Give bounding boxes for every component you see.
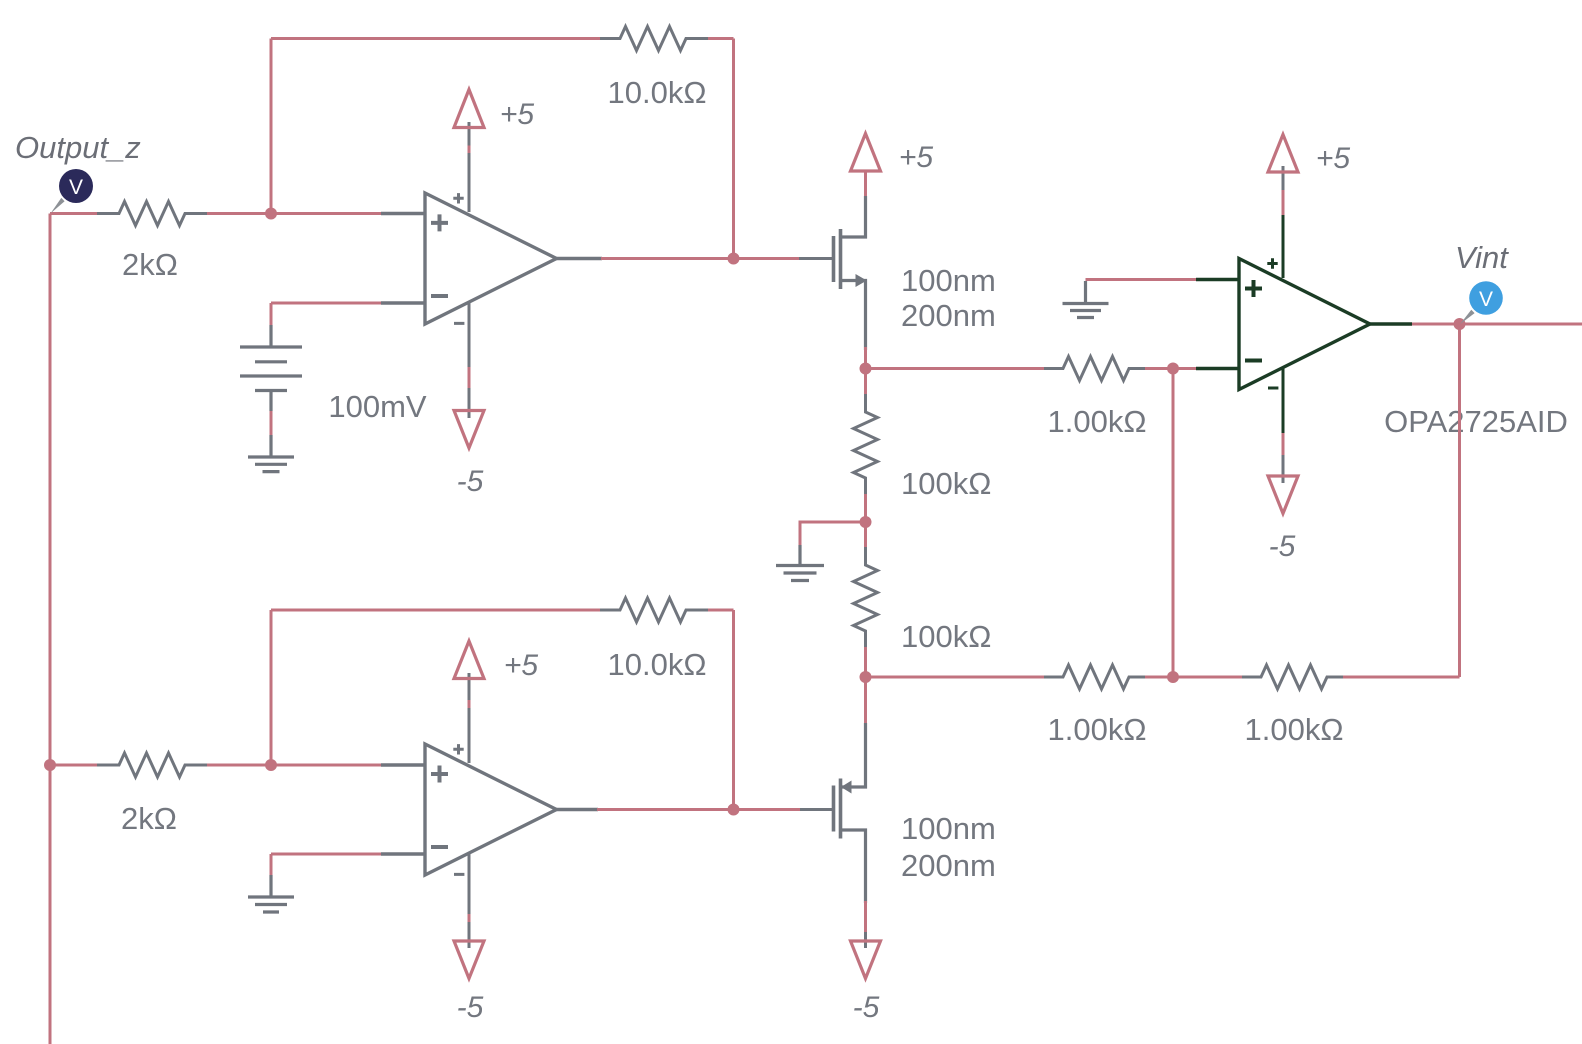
transistor M2 bottom pmos — [799, 723, 866, 903]
svg-text:1.00kΩ: 1.00kΩ — [1047, 712, 1146, 747]
arrow M2 drain — [841, 781, 852, 794]
svg-text:+5: +5 — [899, 141, 934, 174]
wire op-amp3 -in to ground — [271, 854, 382, 875]
resistor R5 1.00k — [1044, 357, 1147, 381]
wire node G down — [1458, 324, 1461, 677]
power flag -5 op-amp U3 — [454, 941, 484, 979]
wire R5 to node F — [1145, 367, 1196, 370]
node F junction op-amp2 -in — [1167, 363, 1179, 375]
wire M1 source to node — [864, 347, 867, 369]
svg-text:-5: -5 — [853, 991, 880, 1024]
svg-text:+5: +5 — [504, 649, 539, 682]
resistor R8 2k bottom — [97, 753, 207, 777]
node B junction op-amp1 output — [728, 253, 740, 265]
power flag -5 op-amp U2 — [1268, 476, 1298, 514]
svg-text:V: V — [69, 176, 83, 199]
wire op-amp2 output — [1412, 323, 1582, 326]
svg-text:10.0kΩ: 10.0kΩ — [607, 75, 706, 110]
wire node D down — [864, 522, 867, 548]
probe Output_z circle — [59, 169, 93, 203]
svg-text:+5: +5 — [500, 98, 535, 131]
wire node E to M2 drain — [864, 677, 867, 723]
node D junction divider mid — [860, 516, 872, 528]
probe Vint circle — [1469, 281, 1503, 315]
node E junction bottom — [860, 671, 872, 683]
arrow M1 source — [856, 274, 867, 287]
resistor R9 10.0k feedback bottom — [600, 598, 710, 622]
ground mid divider — [776, 545, 824, 581]
node J junction op-amp3 +in — [265, 759, 277, 771]
wire feedback1 top horizontal — [271, 37, 603, 40]
wire top row left segment — [50, 212, 271, 215]
svg-text:Vint: Vint — [1455, 240, 1509, 275]
svg-text:10.0kΩ: 10.0kΩ — [607, 647, 706, 682]
wire op-amp2 power bottom — [1282, 433, 1285, 455]
wire op-amp3 output to gate — [597, 808, 800, 811]
wire feedback2 vertical left — [270, 610, 273, 765]
ground op-amp2 +in — [1063, 281, 1109, 318]
op-amp U1 — [381, 122, 602, 418]
transistor M1 top nmos — [799, 196, 866, 350]
resistor R6 1.00k — [1044, 665, 1147, 689]
wire node C to R5 — [866, 367, 1047, 370]
node A junction top-left — [265, 208, 277, 220]
wire feedback1 right segment — [708, 39, 734, 259]
ground under battery — [248, 435, 294, 472]
node K junction op-amp3 output — [728, 804, 740, 816]
ground op-amp3 -in — [248, 875, 294, 912]
wire feedback2 right segment — [708, 610, 734, 810]
wire R4 to node E — [864, 647, 867, 677]
op-amp U2 OPA2725AID — [1196, 215, 1412, 433]
resistor R7 1.00k — [1242, 665, 1345, 689]
svg-text:200nm: 200nm — [901, 848, 996, 883]
wire R6 to node H — [1145, 676, 1173, 679]
node G junction Vint — [1454, 318, 1466, 330]
svg-text:100nm: 100nm — [901, 263, 996, 298]
resistor R4 100k lower — [854, 547, 878, 649]
wire R7 to node G column — [1343, 675, 1460, 677]
svg-text:2kΩ: 2kΩ — [122, 247, 178, 282]
wire feedback2 top horizontal — [271, 609, 603, 612]
wire op-amp1 +in — [271, 212, 382, 215]
wire node C down — [864, 369, 867, 396]
power flag +5 op-amp U2 — [1268, 135, 1298, 173]
power flag +5 M1 — [851, 134, 881, 172]
op-amp U3 — [381, 673, 598, 948]
wire node F down — [1172, 369, 1175, 678]
svg-text:-5: -5 — [457, 991, 484, 1024]
svg-text:OPA2725AID: OPA2725AID — [1384, 404, 1568, 439]
node C junction mid — [860, 363, 872, 375]
svg-text:1.00kΩ: 1.00kΩ — [1244, 712, 1343, 747]
node H junction — [1167, 671, 1179, 683]
svg-text:2kΩ: 2kΩ — [121, 801, 177, 836]
wire op-amp2 power top — [1282, 190, 1285, 215]
svg-text:Output_z: Output_z — [15, 130, 141, 165]
wire bottom row left — [50, 764, 271, 767]
svg-text:-5: -5 — [1269, 530, 1296, 563]
wire R3 to node D — [864, 494, 867, 522]
resistor R2 10.0k feedback top — [600, 27, 710, 51]
wire op-amp1 output to gate — [601, 257, 800, 260]
node I junction left column — [44, 759, 56, 771]
wire M2 source to -5 — [864, 901, 867, 932]
wire M1 drain to +5 — [864, 171, 867, 196]
svg-text:-5: -5 — [457, 465, 484, 498]
wire node H to R7 — [1173, 676, 1244, 679]
svg-text:100kΩ: 100kΩ — [901, 466, 991, 501]
battery V1 100mV — [240, 325, 302, 411]
svg-text:200nm: 200nm — [901, 298, 996, 333]
svg-text:+5: +5 — [1316, 142, 1351, 175]
wire node E to R6 — [866, 676, 1047, 679]
wire node D to ground — [800, 522, 866, 545]
svg-text:100nm: 100nm — [901, 811, 996, 846]
power flag +5 op-amp U1 — [454, 90, 484, 128]
wire op-amp2 +in to ground — [1086, 278, 1197, 281]
wire ticks op-amp3 power — [468, 700, 471, 922]
wire battery to ground — [270, 411, 273, 435]
svg-text:100kΩ: 100kΩ — [901, 619, 991, 654]
svg-text:V: V — [1479, 288, 1493, 311]
resistor R1 2k — [97, 202, 207, 226]
wire feedback1 vertical left — [270, 39, 273, 214]
wire op-amp1 -in from battery — [271, 303, 382, 325]
probe Vint tail — [1460, 310, 1475, 324]
power flag +5 op-amp U3 — [454, 641, 484, 679]
resistor R3 100k upper — [854, 394, 878, 496]
svg-text:100mV: 100mV — [328, 389, 427, 424]
power flag -5 op-amp U1 — [454, 411, 484, 449]
wire left vertical Output_z column — [49, 214, 52, 1044]
svg-text:1.00kΩ: 1.00kΩ — [1047, 404, 1146, 439]
wire op-amp3 +in — [271, 764, 382, 767]
power flag -5 M2 — [851, 941, 881, 979]
wire ticks op-amp1 power — [468, 146, 471, 389]
probe Output_z tail — [51, 198, 65, 214]
